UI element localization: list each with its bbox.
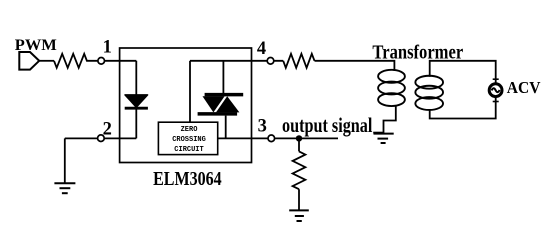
pin 4 terminal xyxy=(267,58,274,65)
tick above source xyxy=(493,78,499,80)
AC source V1 xyxy=(489,84,502,97)
svg-text:4: 4 xyxy=(257,39,266,59)
triac right triangle xyxy=(216,96,239,112)
svg-text:ELM3064: ELM3064 xyxy=(153,169,222,190)
AC source sine xyxy=(492,88,500,92)
LED D1 cathode bar xyxy=(125,107,148,110)
resistor R2 xyxy=(283,54,314,68)
wire to ground left xyxy=(64,138,66,183)
zero crossing circuit text xyxy=(172,126,206,154)
wire R3 to ground xyxy=(298,189,300,210)
triac MT2 bar xyxy=(205,93,244,97)
wire pin 3 output xyxy=(218,137,338,139)
pin 2 terminal xyxy=(98,135,105,142)
pin 3 terminal xyxy=(268,135,275,142)
triac left triangle xyxy=(203,96,225,112)
wire down to zero crossing circuit xyxy=(189,61,191,122)
svg-text:2: 2 xyxy=(103,119,112,139)
svg-text:3: 3 xyxy=(258,117,267,137)
LED D1 triangle xyxy=(125,95,148,107)
svg-text:1: 1 xyxy=(103,38,112,58)
ground G1 xyxy=(54,183,75,193)
wire R1 to LED anode (through pin 1) xyxy=(88,60,136,62)
wire primary bottom exit xyxy=(384,105,396,134)
tick below source xyxy=(493,101,499,103)
inductor L2 secondary coil xyxy=(415,76,443,110)
zero crossing circuit box xyxy=(158,122,217,154)
svg-text:ZERO: ZERO xyxy=(181,126,198,134)
wire triac MT1 to pin 3 xyxy=(225,116,227,139)
wire LED vertical xyxy=(135,61,137,139)
wire pin 4 rail inside box xyxy=(190,60,283,62)
wire R2 to transformer primary xyxy=(315,61,395,71)
ground G3 xyxy=(289,210,309,221)
svg-text:output signal: output signal xyxy=(282,113,373,137)
resistor R3 xyxy=(293,151,306,189)
wire secondary top xyxy=(430,61,496,83)
ground G2 xyxy=(374,134,394,143)
triac MT1 bar xyxy=(198,112,238,116)
optocoupler U1 box ELM3064 xyxy=(120,48,252,163)
resistor R1 xyxy=(54,54,88,68)
svg-text:CROSSING: CROSSING xyxy=(172,136,206,144)
wire junction to R3 xyxy=(298,138,300,151)
connector PWM input xyxy=(19,52,39,70)
wire secondary bottom xyxy=(430,98,496,119)
inductor L1 primary coil xyxy=(378,70,405,106)
pin 1 terminal xyxy=(98,58,105,65)
wire triac MT2 xyxy=(222,61,224,94)
svg-text:CIRCUIT: CIRCUIT xyxy=(174,146,203,154)
svg-text:ACV: ACV xyxy=(507,78,541,97)
node output junction xyxy=(296,135,302,141)
wire PWM to R1 xyxy=(39,60,54,62)
wire pin 2 to LED cathode xyxy=(65,137,137,139)
underscore mark after signal xyxy=(373,132,383,134)
